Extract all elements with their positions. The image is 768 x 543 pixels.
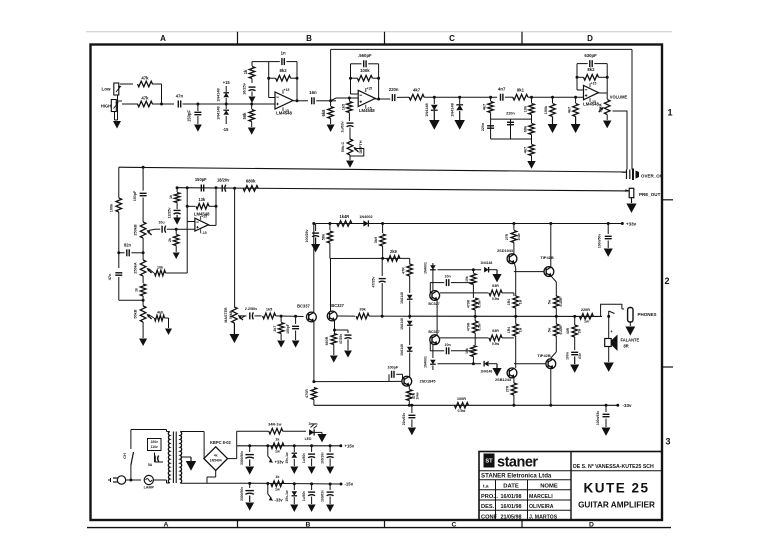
svg-text:B: B [306,34,312,43]
svg-text:0.22R: 0.22R [559,325,563,335]
svg-text:250kA: 250kA [133,262,137,274]
svg-text:D: D [589,522,594,529]
svg-text:BC337: BC337 [428,330,439,334]
svg-text:47k: 47k [141,76,149,81]
svg-text:DEPTH: DEPTH [359,140,363,153]
svg-text:BC327: BC327 [428,302,439,306]
svg-text:63v: 63v [578,353,582,359]
svg-text:47n: 47n [176,94,184,99]
svg-text:1N4148: 1N4148 [450,102,454,116]
svg-text:1: 1 [668,108,673,118]
svg-text:2SB1243: 2SB1243 [495,378,511,382]
svg-text:C: C [452,522,457,529]
svg-text:0.22R: 0.22R [559,297,563,307]
svg-text:100pF: 100pF [387,366,398,370]
svg-text:220n: 220n [506,112,515,116]
svg-text:-33v: -33v [275,498,284,503]
svg-text:8k2: 8k2 [587,67,595,72]
svg-text:+33v: +33v [275,460,285,465]
svg-text:BC337: BC337 [297,304,310,309]
svg-text:1w: 1w [518,327,522,332]
svg-text:100/16v: 100/16v [321,452,325,464]
svg-text:MARCELI: MARCELI [529,494,553,500]
svg-text:10n: 10n [444,275,450,279]
svg-text:1w: 1w [584,320,589,324]
svg-text:100k: 100k [544,105,548,114]
svg-text:+33v: +33v [626,221,637,226]
svg-text:5A: 5A [148,463,153,467]
svg-text:220v: 220v [151,440,158,444]
svg-text:680R: 680R [325,336,329,345]
svg-text:6k8: 6k8 [321,109,326,117]
svg-text:40R: 40R [566,327,570,334]
svg-text:1/4w: 1/4w [416,392,420,400]
svg-text:0.5w: 0.5w [478,300,482,308]
svg-text:GUITAR AMPLIFIER: GUITAR AMPLIFIER [578,501,655,510]
svg-text:8R: 8R [624,344,629,349]
svg-text:47k: 47k [141,96,149,101]
svg-text:50kB: 50kB [229,310,233,319]
svg-text:KBPC 8-02: KBPC 8-02 [210,440,232,445]
svg-text:10u: 10u [158,221,164,225]
svg-text:1N4148: 1N4148 [400,344,404,356]
svg-text:LM4548: LM4548 [359,108,375,113]
svg-text:18/20v: 18/20v [217,177,230,182]
svg-text:1N4148: 1N4148 [425,102,429,116]
svg-text:1R4: 1R4 [507,327,511,333]
svg-text:-15: -15 [222,127,229,132]
svg-text:+15: +15 [591,82,597,86]
svg-text:1N4002: 1N4002 [359,215,372,219]
svg-text:1N4001: 1N4001 [424,356,428,368]
svg-text:15k: 15k [465,276,469,282]
svg-text:+15: +15 [284,88,290,92]
svg-text:A: A [160,34,166,43]
svg-text:LM4548: LM4548 [583,102,599,107]
svg-text:63R: 63R [492,284,499,288]
svg-text:-15v: -15v [345,482,354,487]
svg-text:PRE_OUT: PRE_OUT [639,192,661,197]
svg-text:16/01/98: 16/01/98 [500,494,521,500]
svg-text:CONF: CONF [481,514,498,520]
svg-text:10k: 10k [523,105,527,112]
svg-text:47/25v: 47/25v [339,334,343,344]
svg-text:MASTER: MASTER [224,307,228,323]
svg-text:1w: 1w [275,487,280,491]
svg-text:12/25v: 12/25v [168,207,172,218]
svg-text:50k-C: 50k-C [341,142,345,153]
svg-text:-33v: -33v [623,403,633,408]
svg-text:10kA: 10kA [599,103,603,112]
svg-text:1N5404: 1N5404 [210,459,222,463]
svg-text:110v: 110v [151,445,158,449]
svg-text:A: A [164,522,169,529]
svg-text:680k: 680k [246,178,256,183]
svg-text:1N4148: 1N4148 [480,370,492,374]
svg-text:100/63v: 100/63v [321,490,325,502]
svg-text:+15v: +15v [345,443,355,448]
svg-text:27R: 27R [505,233,509,240]
svg-text:100n: 100n [565,352,569,360]
svg-text:3: 3 [666,437,671,447]
svg-text:220R: 220R [581,308,590,312]
svg-text:0.5w: 0.5w [492,297,500,301]
svg-text:-15: -15 [202,231,207,235]
svg-text:+15: +15 [223,80,231,85]
svg-text:10k: 10k [465,348,469,354]
svg-text:15v-1w: 15v-1w [285,490,289,502]
svg-text:2SD1943: 2SD1943 [497,249,513,253]
svg-text:50k: 50k [242,112,247,120]
svg-text:4k7: 4k7 [567,107,571,113]
svg-text:B: B [306,522,311,529]
svg-text:150pF: 150pF [133,190,137,201]
svg-text:63R: 63R [492,329,499,333]
svg-text:39k: 39k [359,308,366,312]
svg-text:4n7: 4n7 [498,86,506,91]
svg-text:LM4548: LM4548 [276,111,292,116]
svg-text:J. MARTOS: J. MARTOS [529,514,558,520]
svg-text:2k7: 2k7 [273,326,277,332]
svg-text:100n/50v: 100n/50v [598,234,602,248]
svg-text:OLIVEIRA: OLIVEIRA [529,504,554,510]
svg-text:100n/63v: 100n/63v [596,411,600,425]
svg-text:3300/50v: 3300/50v [240,487,244,501]
svg-text:0.5w: 0.5w [478,323,482,331]
svg-text:+15: +15 [366,87,372,91]
svg-text:13k: 13k [198,197,206,202]
svg-text:1k5: 1k5 [266,307,273,311]
svg-text:27R: 27R [505,385,509,392]
svg-text:8k2: 8k2 [280,68,288,73]
svg-text:DE S. Nº VANESSA-KUTE25 SCH: DE S. Nº VANESSA-KUTE25 SCH [573,464,654,470]
svg-text:50kB: 50kB [133,309,137,318]
svg-text:.560pF: .560pF [358,53,372,58]
svg-text:TIP41B: TIP41B [540,255,554,260]
svg-text:DATE: DATE [503,484,519,490]
svg-text:ST: ST [485,459,493,465]
svg-text:4k7: 4k7 [523,147,527,153]
svg-text:1R4: 1R4 [507,299,511,305]
svg-text:56k: 56k [321,233,325,240]
svg-text:100k: 100k [360,68,370,73]
svg-text:1u/63v: 1u/63v [341,121,345,132]
svg-text:staner: staner [497,455,538,471]
svg-text:16/01/98: 16/01/98 [500,504,521,510]
svg-text:4k7: 4k7 [413,88,421,93]
svg-text:NOME: NOME [540,484,558,490]
svg-text:2: 2 [665,276,670,286]
svg-text:C: C [449,34,455,43]
svg-text:2.2/50v: 2.2/50v [245,307,258,311]
svg-text:LED: LED [305,437,312,441]
svg-text:82n: 82n [124,242,132,247]
svg-text:21/05/98: 21/05/98 [500,514,521,520]
svg-text:47/25v: 47/25v [372,276,376,287]
svg-text:4x: 4x [214,454,218,458]
svg-text:250kB: 250kB [133,224,137,236]
svg-text:34R-1w: 34R-1w [268,423,281,427]
svg-text:47n: 47n [108,273,112,280]
svg-text:DES.: DES. [481,504,495,510]
svg-text:1N4001: 1N4001 [424,262,428,274]
svg-text:2SD1845: 2SD1845 [420,379,437,383]
svg-text:Low: Low [101,87,111,92]
svg-text:68k: 68k [523,125,527,132]
svg-text:CH: CH [123,453,127,459]
svg-text:470R: 470R [467,322,471,331]
svg-text:LM4548: LM4548 [194,212,210,217]
svg-text:1w: 1w [518,299,522,304]
svg-text:1N4148: 1N4148 [480,261,492,265]
svg-text:470R: 470R [305,389,309,398]
svg-text:630pF: 630pF [584,53,597,58]
svg-text:16n: 16n [309,90,317,95]
svg-text:150pF: 150pF [187,110,192,122]
svg-text:10n: 10n [444,343,450,347]
svg-text:HIGH: HIGH [101,104,111,109]
svg-text:100k: 100k [110,203,114,212]
svg-text:1k: 1k [243,69,248,74]
svg-text:3k9: 3k9 [374,237,378,243]
svg-text:OVER_ON: OVER_ON [641,173,663,178]
svg-text:1n: 1n [281,51,286,56]
svg-text:1u/50v: 1u/50v [302,453,306,463]
svg-text:100R: 100R [457,397,466,401]
svg-text:5w: 5w [548,327,552,332]
svg-text:t.a: t.a [483,484,489,490]
svg-text:22n/63v: 22n/63v [402,413,406,426]
svg-text:10k: 10k [157,265,164,269]
svg-text:1N4148: 1N4148 [217,105,221,119]
svg-text:VOLUME: VOLUME [610,95,628,100]
svg-text:BC327: BC327 [331,303,344,308]
svg-text:STANER Eletronica Ltda: STANER Eletronica Ltda [481,473,552,480]
svg-text:PROJ.: PROJ. [481,494,498,500]
svg-text:5w: 5w [548,299,552,304]
svg-text:D: D [587,34,593,43]
svg-text:15v-1w: 15v-1w [285,452,289,464]
svg-text:9k1: 9k1 [517,88,525,93]
svg-text:TIP42B: TIP42B [537,353,551,358]
svg-text:1u/50v: 1u/50v [302,491,306,501]
svg-text:470R: 470R [467,299,471,308]
svg-text:4k7: 4k7 [482,104,486,110]
svg-text:47R: 47R [401,267,405,274]
svg-text:1N4148: 1N4148 [217,87,221,101]
svg-text:1w: 1w [275,450,280,454]
svg-text:100/25v: 100/25v [305,229,309,242]
svg-text:0.5w: 0.5w [492,342,500,346]
svg-text:1k5: 1k5 [342,103,346,110]
svg-text:4k6: 4k6 [157,311,163,315]
svg-text:1k4R: 1k4R [339,214,349,219]
svg-text:3300/50v: 3300/50v [240,451,244,465]
svg-text:220n: 220n [389,87,399,92]
svg-text:1/4w: 1/4w [517,233,521,241]
svg-text:0.5w: 0.5w [457,409,465,413]
svg-text:16/25v: 16/25v [243,82,247,95]
svg-text:1N4148: 1N4148 [400,318,404,330]
svg-text:KUTE 25: KUTE 25 [583,481,649,496]
svg-text:180pF: 180pF [286,324,290,334]
svg-text:2w: 2w [578,328,582,333]
svg-text:FALANTE: FALANTE [621,338,640,343]
svg-text:220n: 220n [481,123,485,131]
svg-text:PHONES: PHONES [638,312,657,317]
svg-text:1N4148: 1N4148 [400,292,404,304]
svg-text:2k9: 2k9 [390,249,398,254]
svg-text:150pF: 150pF [195,177,207,182]
svg-text:LAMP: LAMP [144,486,155,490]
